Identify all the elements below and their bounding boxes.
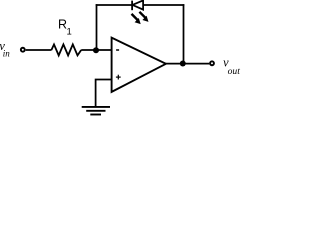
resistor R1 xyxy=(51,44,81,55)
svg-text:out: out xyxy=(228,66,241,77)
terminal v_out xyxy=(210,61,214,65)
node A junction dot (inverting input) xyxy=(93,47,99,53)
LED D1 cathode bar xyxy=(131,1,133,11)
LED D1 triangle xyxy=(132,0,143,9)
op-amp U1 plus sign xyxy=(116,75,121,80)
wire inverting input xyxy=(96,49,112,51)
svg-text:1: 1 xyxy=(67,27,72,38)
svg-text:in: in xyxy=(3,49,11,59)
op-amp U1 minus sign xyxy=(116,49,119,51)
label v_out xyxy=(223,56,240,77)
wire non-inverting input xyxy=(96,80,112,107)
wire output xyxy=(166,63,210,65)
wire input to resistor xyxy=(26,49,52,51)
wire feedback loop top horizontal xyxy=(96,4,185,6)
LED D1 emission arrow 1 xyxy=(132,14,141,24)
wire resistor to node A xyxy=(81,49,96,51)
terminal v_in xyxy=(21,48,25,52)
label v_in xyxy=(0,39,10,59)
wire feedback loop right vertical xyxy=(183,4,185,63)
node output junction dot xyxy=(180,61,186,67)
label R1 xyxy=(58,18,72,38)
op-amp U1 body xyxy=(112,38,166,92)
wire feedback loop left vertical xyxy=(96,4,98,50)
LED D1 emission arrow 2 xyxy=(139,12,148,22)
ground symbol xyxy=(82,107,110,115)
